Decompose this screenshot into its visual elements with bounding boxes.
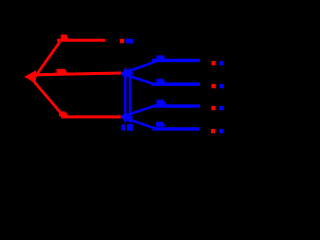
blue level lower-top: [154, 104, 200, 107]
arrowhead on top level: [61, 35, 69, 40]
right label pair level3 blue: [219, 106, 224, 110]
up arrowhead on right vertical: [127, 67, 134, 75]
left red arrowhead (origin level vertex): [24, 70, 36, 83]
top level label (blue part): [126, 39, 133, 44]
arrowhead on middle level: [57, 69, 69, 74]
arrowhead on lower-top level: [157, 100, 167, 105]
upper blue arrowhead: [121, 68, 131, 78]
right label pair level3 red: [211, 106, 215, 110]
lower blue arrowhead: [121, 112, 131, 122]
vertical connector line left: [124, 73, 126, 118]
top level label (red part): [120, 39, 124, 43]
red diagonal to bottom level: [31, 78, 65, 118]
red bottom level line: [61, 115, 122, 118]
red middle level line: [32, 73, 121, 75]
right label pair level2 blue: [219, 84, 224, 88]
blue diagonal lower-fan up: [121, 106, 155, 117]
vertical connector line right: [129, 73, 131, 118]
arrowhead on upper-bottom level: [157, 79, 166, 84]
red top level line: [57, 39, 105, 42]
arrowhead on lower-bottom level: [156, 122, 166, 127]
blue diagonal upper-fan up: [121, 61, 158, 74]
arrowhead on upper-top level: [157, 55, 167, 60]
up arrowhead on left vertical: [122, 67, 129, 75]
right label pair level4 red: [211, 129, 215, 133]
right label pair level1 blue: [219, 61, 223, 65]
arrowhead on bottom level: [59, 111, 69, 116]
right label pair level2 red: [211, 84, 215, 88]
right label pair level1 red: [211, 61, 215, 65]
blue level lower-bottom: [153, 127, 200, 130]
down arrowhead on right vertical: [127, 117, 134, 124]
blue diagonal upper-fan down: [121, 74, 155, 85]
blue level upper-bottom: [152, 82, 200, 85]
label under lower blue arrow glyph2: [127, 124, 133, 131]
blue diagonal lower-fan down: [121, 117, 155, 128]
label under lower blue arrow glyph1: [121, 125, 125, 131]
blue level upper-top: [152, 59, 200, 62]
red diagonal to top level: [35, 42, 61, 78]
right label pair level4 blue: [219, 129, 223, 133]
down arrowhead on left vertical: [122, 117, 129, 124]
